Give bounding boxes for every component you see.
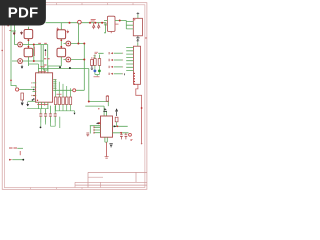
junction dot drop1 [10,80,12,82]
resistor R13 [62,97,65,105]
label dashes on lamp wire [38,42,47,44]
IC1 left pins [33,83,37,96]
voltage regulator IC4 [107,16,115,31]
red wire to gnd [106,142,108,156]
wire vertical x88 bus to H1 [88,69,90,102]
frame inner border [4,5,145,188]
resistor R6 [94,59,97,66]
junction dot IC2 left [99,122,101,124]
junction dot A bottom [33,60,35,62]
R16 top tick [91,57,93,60]
wire vcc to SV1 [137,43,139,47]
vcc arrow IC2 right [116,109,118,116]
wire IC1 top harness [28,64,88,73]
wire right pin to node [57,89,73,91]
resistor R11 [54,97,57,105]
frame tick top 1 [56,3,58,5]
wire badge drop 2 [13,25,15,44]
junction dot bus 3 [101,22,103,24]
junction dot IC4 out [119,20,121,22]
dark tick near jumper 4 [123,73,125,75]
IC4 left pin tick [105,23,107,25]
ground arrow resistor bank [74,113,76,115]
IC1 bottom pins [38,102,48,109]
resistor R7 [98,59,101,66]
resistor R16 pullup [91,60,94,66]
resistor R5 vertical left [21,93,24,100]
F1 top pin [27,27,29,30]
IC4 value label [116,23,119,25]
R16 ground black [91,66,93,70]
fuse pin ticks [28,28,61,58]
capacitor C3 [49,106,52,123]
red tick left [9,30,11,32]
wire node drop B [77,23,79,44]
black ground IC2 [109,144,112,147]
red net line segment [33,47,35,57]
resistor R12 [58,97,61,105]
capacitor C8 left of IC2 [86,133,89,136]
net wire bottom left [12,159,23,161]
wire badge drop 4 [47,45,49,71]
capacitor C2 [44,109,47,123]
title block left vertical [87,172,89,187]
R9 bottom wire [116,122,118,127]
supply label squiggle [19,151,21,155]
connector X2 body [133,18,142,36]
red tick under badge [7,25,9,27]
microcontroller IC1 [36,73,53,102]
net arrow B1 [57,27,59,31]
lamp H2 [12,59,43,64]
jumper JP2 [109,59,122,61]
frame tick bottom 2 [56,188,58,190]
frame row label dot right [145,37,146,38]
resistor bank bottom wire [56,105,75,113]
IC1 right pin ticks [54,79,56,89]
junction dot F3 bottom [60,39,62,41]
IC2 right pins [113,126,129,133]
jumper JP4 [109,73,122,75]
title block divider vertical 2 [135,172,137,182]
node circle left [16,88,19,91]
wire badge drop 1 [11,25,16,87]
R8 top tick [107,94,109,96]
net arrow B2 [67,30,69,34]
black right arrow on pin wire [114,125,117,127]
junction dot A top [33,44,35,46]
led D1 blue [94,70,97,73]
supply label text [9,147,17,149]
IC1 name label [39,67,47,72]
junction dot right pin [117,125,119,127]
led wires [95,65,100,76]
diode D3 [93,23,95,29]
junction dot F1 bottom [28,39,30,41]
IC2 left pins [94,127,101,132]
SV1 unused pin dots [133,73,135,84]
red dot below wireH2 [98,108,99,109]
frame tick top 3 [107,3,109,5]
ground arrow below lamp H2 [21,65,23,69]
net wire end arrow [141,143,143,145]
led D2 green [98,70,101,73]
jumper JP1 [109,52,122,54]
wire to node circle left [19,89,33,91]
X2 top pin stub [137,15,139,18]
capacitor C10 hanging [125,133,128,140]
black arrow right [104,108,106,110]
IC4 left pin 1 [104,20,107,22]
black plus mark [31,99,33,101]
F2 bottom pin [27,57,29,66]
resistor R6 label [95,52,99,54]
fuse F3 [57,30,66,39]
net arrow A2 dark [20,31,22,35]
wire top bus [46,22,107,24]
capacitor C4 [54,106,57,123]
jumper JP3 [109,66,122,68]
jumper right end ticks [122,53,124,75]
net arrow A1 dark [13,31,15,35]
frame tick bottom 3 [81,188,83,190]
X2 bottom ground dark [136,36,139,39]
junction dot bus 1 [89,22,91,24]
SV1 pins [126,48,133,71]
junction dot wireH1 [88,101,90,103]
wire H2 above IC2 [85,106,106,116]
R16 label [93,56,95,58]
resistor R9 [115,117,118,122]
wire badge drop 3 [42,45,44,71]
frame row label dot left [1,50,3,52]
bank label [57,93,62,95]
F1 bottom pin [27,39,29,49]
junction dot bus 2 [94,22,96,24]
vcc plus symbol [136,39,139,42]
junction dot bus 0 [69,22,71,24]
black left arrow IC2 [96,122,99,124]
fuse F2 [24,48,33,57]
net diamond stem [44,51,46,56]
resistor R14 [66,97,69,105]
wire branch y31 [11,30,16,32]
vertical link wire A [33,45,35,62]
wire H1 above IC2 [89,102,109,107]
net arrow bottom left [9,159,12,161]
title block outer top line [88,171,147,173]
black gnd bar on wire [103,110,107,112]
IC1 left pin dark dot 2 [33,98,35,100]
resistor bank wires [56,80,71,97]
node circle X1 on bus [78,20,82,24]
supply label green [17,147,23,149]
IC2 left pin ticks [93,126,95,133]
junction dot B1 [77,43,79,45]
title block row line 1 [75,181,147,183]
junction dot F4 top [60,46,62,48]
red label below node [130,139,132,140]
ground arrow left of IC1 [27,102,29,106]
red ground symbol [105,157,109,158]
IC4 right pin [115,20,126,22]
page background [0,0,149,198]
IC2 bottom wires [105,137,107,142]
led bottom label [94,76,100,78]
IC1 left gnd stub [28,100,36,102]
resistor R8 above IC2 [106,96,108,101]
F3 bottom pin [60,39,62,49]
frame tick top 4 [132,3,134,5]
junction dot B2 [83,59,85,61]
ground arrow left [21,100,24,105]
svg-text:PDF: PDF [8,4,39,21]
IC4 bottom tick [110,31,112,33]
black dot bottom left [22,159,24,161]
title block row line 2 [75,184,147,186]
resistor R15 [69,97,72,105]
X2 pin 1 stub [126,21,133,29]
fuse F1 [24,30,33,39]
lamp H1 [14,42,47,47]
wire R6 top [95,53,104,58]
F3 top wire [60,23,62,30]
capacitor C1 [39,109,42,123]
capacitor harness top [27,109,60,128]
IC1 left pin dark dot 1 [33,89,35,91]
junction dot B3 [83,43,85,45]
wire drop x41 [40,45,42,67]
frame tick bottom 1 [30,188,32,190]
black junction dot top 2 [69,67,71,69]
IC4 corner wire [104,24,106,33]
IC2 left wire [90,126,101,134]
net wire junction dot [141,107,143,109]
frame tick top 2 [81,3,83,5]
IC1 left pin ticks [31,82,33,96]
title block left vertical lower [74,182,76,187]
IC1 left pin red dot [33,95,34,96]
capacitor C9 hanging [120,133,123,140]
pin header SV1 body [134,46,141,84]
IC4 left pin 2 [104,23,107,25]
junction dot lower pin wire [120,132,122,134]
black dot below caps [40,127,42,129]
IC1 pin1 mark [37,100,38,101]
IC1 bottom label [37,104,48,106]
driver IC2 [101,116,113,137]
lamp H3 [64,41,85,46]
wire vertical x83 [76,44,85,91]
X2 pin1 mark [134,19,135,20]
title block divider vertical 1 [100,182,102,187]
lamp H4 [64,57,85,62]
fuse F4 [57,48,66,57]
black junction dot top 1 [59,66,61,68]
node circle right cluster [129,133,132,136]
title block mid line short [88,176,103,178]
black net diamond [44,49,46,51]
frame outer border [2,3,147,190]
node circle right [73,89,76,92]
F4 bottom pin [60,57,62,66]
X2 top vcc plus [137,12,140,15]
diode D4 [98,23,100,29]
junction dot F2 top [28,46,30,48]
IC1 right pins [53,80,56,91]
label text near bus [91,20,96,22]
SV1 bottom net wire [136,84,142,143]
pdf badge [0,0,46,26]
label marks near verticals [44,59,50,65]
